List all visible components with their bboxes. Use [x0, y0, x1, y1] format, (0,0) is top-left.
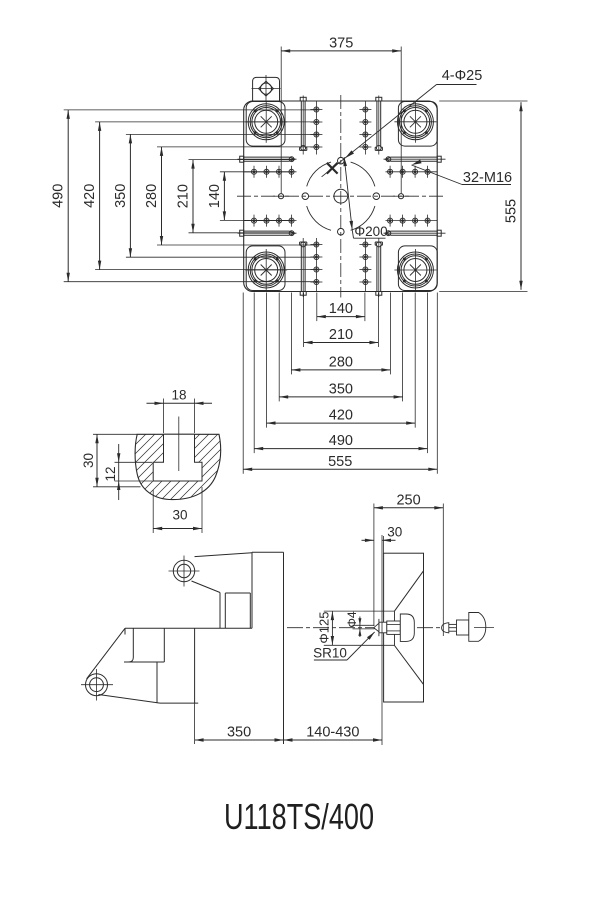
label 4-Phi25: [437, 68, 483, 85]
platen front view outline: [244, 101, 438, 292]
svg-text:555: 555: [328, 454, 352, 470]
nozzle touch position: [374, 614, 415, 641]
M16 bolt row left-lower: [244, 215, 297, 227]
svg-text:U118TS/400: U118TS/400: [224, 796, 374, 837]
base box: [160, 628, 198, 703]
lower bracket eye: [81, 669, 113, 701]
dimension 375: [281, 35, 401, 193]
platen horizontal centreline: [237, 195, 446, 197]
M16 bolt column top-right: [359, 101, 371, 155]
svg-text:375: 375: [329, 35, 353, 51]
svg-text:140: 140: [329, 301, 353, 317]
section hatching: [30, 425, 335, 505]
section T-slot cut: [153, 434, 202, 481]
svg-text:Φ200: Φ200: [354, 224, 387, 239]
M16 bolt row right-upper: [386, 166, 438, 178]
svg-text:420: 420: [329, 408, 353, 424]
dimension Phi4: [345, 611, 374, 637]
T-slot left-upper: [238, 156, 297, 162]
dimension 140 (left): [207, 172, 292, 221]
dimension 210 (left): [176, 160, 295, 233]
svg-text:420: 420: [82, 184, 98, 208]
dimension 30 (section left): [81, 434, 140, 487]
ejector hole left: [273, 194, 289, 199]
T-slot right-lower: [384, 230, 446, 236]
svg-text:210: 210: [176, 184, 192, 208]
svg-text:140: 140: [207, 184, 223, 208]
svg-text:18: 18: [171, 388, 186, 403]
svg-text:350: 350: [113, 184, 129, 208]
dimension 280 (left): [144, 147, 318, 245]
svg-text:SR10: SR10: [313, 646, 347, 661]
T-slot top-left: [300, 96, 307, 155]
svg-text:350: 350: [227, 725, 251, 741]
M16 bolt row right-lower: [386, 215, 438, 227]
bolt circle Phi200 arcs: [307, 162, 375, 230]
svg-text:4-Φ25: 4-Φ25: [442, 68, 483, 84]
dimension 350 (bottom): [279, 293, 402, 402]
dimension 350 (side view): [195, 704, 284, 745]
label 32-M16: [462, 170, 512, 186]
bed line: [125, 628, 252, 634]
T-slot right-upper: [384, 156, 446, 162]
dimension 555 (right): [439, 101, 527, 292]
svg-text:12: 12: [103, 466, 118, 481]
Phi25 hole bottom: [338, 228, 345, 235]
lifting lug tab: [252, 75, 281, 101]
platen face extension line: [381, 535, 383, 745]
tie-bar hole bottom-right: [394, 249, 436, 291]
dimension 350 (left): [113, 134, 318, 257]
dimension 420 (left): [82, 122, 318, 270]
M16 bolt column bottom-right: [359, 238, 371, 292]
dimension 490 (left): [51, 110, 318, 282]
leader 4-Phi25: [322, 85, 437, 177]
tie-bar hole bottom-left: [245, 249, 287, 291]
dimension 12 (section): [103, 444, 152, 500]
dimension 140 (bottom): [317, 293, 365, 322]
label SR10: [313, 632, 374, 661]
T-slot top-right: [375, 96, 382, 155]
T-slot left-lower: [238, 230, 297, 236]
svg-text:490: 490: [51, 184, 67, 208]
dimension 280 (bottom): [291, 293, 390, 375]
svg-text:350: 350: [329, 381, 353, 397]
fixed platen funnel: [395, 571, 424, 685]
M16 bolt column top-left: [310, 101, 322, 155]
svg-text:30: 30: [387, 525, 402, 540]
svg-text:140-430: 140-430: [306, 725, 359, 741]
svg-text:30: 30: [81, 453, 96, 468]
dimension Phi125: [317, 611, 395, 645]
svg-text:280: 280: [329, 354, 353, 370]
dimension 555 (bottom): [243, 293, 437, 474]
M16 bolt row left-upper: [244, 166, 297, 178]
dimension 250: [374, 492, 443, 636]
Phi200 diameter line: [343, 157, 385, 238]
svg-text:Φ125: Φ125: [317, 612, 332, 644]
nozzle retracted position: [442, 613, 494, 642]
dimension 30 (nozzle): [362, 525, 403, 555]
dimension 18 (section): [147, 388, 213, 434]
T-slot bottom-left: [300, 238, 307, 297]
upper bracket eye: [169, 556, 200, 587]
svg-text:280: 280: [144, 184, 160, 208]
svg-text:32-M16: 32-M16: [463, 170, 512, 186]
Phi25 hole left: [302, 193, 309, 200]
machine centreline: [287, 627, 470, 629]
centre hole: [334, 189, 348, 203]
lower bracket: [87, 628, 165, 703]
dimension 420 (bottom): [267, 293, 416, 428]
tie-bar corner bosses: [246, 102, 437, 291]
Phi25 hole top: [338, 157, 345, 164]
dimension 210 (bottom): [304, 293, 379, 348]
position mark X: [327, 163, 338, 174]
ejector hole right: [393, 194, 409, 199]
title text: [224, 796, 374, 837]
dimension 30 (section bottom): [153, 487, 202, 533]
section slot centreline: [178, 417, 180, 472]
M16 bolt column bottom-left: [310, 238, 322, 292]
moving platen plate: [252, 552, 284, 744]
tie-bar hole top-left: [245, 101, 287, 143]
svg-text:490: 490: [329, 433, 353, 449]
Phi25 hole right: [373, 193, 380, 200]
platen vertical centreline: [340, 95, 342, 298]
leader 32-M16: [412, 160, 463, 185]
T-slot bottom-right: [375, 238, 382, 297]
dimension 140-430: [284, 725, 383, 742]
dimension 490 (bottom): [254, 293, 427, 454]
label Phi200: [354, 224, 387, 239]
fixed platen: [384, 553, 424, 702]
svg-text:250: 250: [396, 492, 420, 508]
section blob outline: [135, 434, 221, 499]
tie-bar hole top-right: [394, 101, 436, 143]
svg-text:210: 210: [329, 327, 353, 343]
svg-text:555: 555: [504, 199, 520, 223]
upper bracket: [192, 553, 253, 629]
svg-text:30: 30: [172, 508, 187, 523]
